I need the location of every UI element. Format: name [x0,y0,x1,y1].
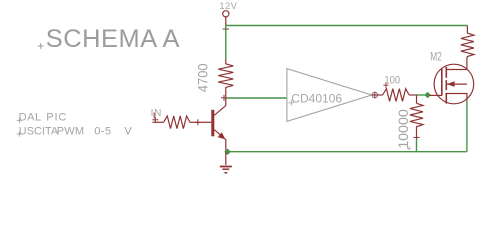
IN origin cross [152,113,158,123]
resistor R base (horizontal) [164,116,191,129]
wire: R10000 to ground rail [416,139,418,152]
ground pin [225,152,227,165]
svg-text:4700: 4700 [194,63,210,92]
value label 10000 (rotated) [395,109,411,149]
gate U1 CD40106 triangle [287,69,372,122]
value label 100 [384,74,400,86]
ground symbol [220,167,232,173]
pin: R10000 top [416,95,418,103]
resistor R 4700 (vertical) [218,59,233,92]
mosfet body line [447,83,467,85]
svg-text:DAL: DAL [19,112,42,124]
wire: bottom ground rail [226,151,467,153]
supply pin [225,17,227,26]
wire: resistor to base pin [190,121,198,123]
mosfet drain tap [446,58,467,70]
inverter bubble [372,92,378,98]
mosfet channel bar [445,67,447,104]
supply label 12V [220,1,238,11]
wire: mosfet source down [466,101,468,152]
transistor Q1 base bar [211,110,214,137]
gate pin [429,94,442,96]
gate label CD40106 [291,91,342,105]
wire: node down to collector [225,98,227,106]
mosfet gate bar [441,69,443,96]
pin: R4700 bottom to junction [225,92,227,98]
svg-text:CD40106: CD40106 [291,91,342,105]
wire: IN to base resistor [153,121,164,123]
svg-text:12V: 12V [220,1,238,11]
resistor R drain (vertical top right) [461,26,474,59]
svg-text:0-5: 0-5 [94,125,111,137]
transistor Q1 emitter [214,130,226,152]
gate origin cross [289,100,295,106]
mosfet body arrow [447,81,455,87]
svg-text:100: 100 [384,74,400,86]
title SCHEMA A [46,25,180,53]
pin: R10000 bottom [416,131,418,139]
wire: node to CD40106 input [226,97,287,99]
wire: to MOSFET gate [417,94,430,96]
R10000 origin cross [413,134,419,140]
wire: top rail 12V [226,25,468,27]
resistor R 100 (horizontal) [383,89,410,102]
output pin of gate [372,94,383,96]
pin: R100 right [409,94,416,96]
svg-text:USCITA: USCITA [19,125,59,137]
resistor R 10000 (vertical) [410,103,423,131]
faint cross near rail [407,146,411,150]
base pin origin cross [195,119,201,125]
supply origin cross [223,26,229,32]
transistor Q1 emitter arrow [218,132,226,139]
svg-text:V: V [124,125,132,137]
text origin cross (USCITA) [17,131,22,136]
mosfet source tap [446,94,467,101]
junction cross below R4700 [221,95,227,101]
transistor Q1 collector [214,106,226,116]
output pin origin cross [374,92,376,98]
annotation USCITA PWM 0-5 V [19,125,133,137]
text origin cross (title) [38,43,44,49]
junction dot (gate net) [424,92,431,99]
mosfet label M2 [430,50,442,64]
svg-text:PIC: PIC [46,112,67,124]
svg-text:M2: M2 [430,50,442,64]
text origin cross (DAL PIC) [17,118,22,123]
svg-text:SCHEMA A: SCHEMA A [46,25,180,53]
annotation DAL PIC [19,112,68,124]
svg-text:IN: IN [151,108,163,119]
net label IN [151,108,163,119]
value origin cross (100) [383,83,388,88]
supply symbol 12V circle [223,11,229,17]
wire: left vertical from rail to R 4700 [225,26,227,60]
transistor base pin [198,121,212,123]
junction dot (emitter/ground) [224,148,231,155]
value label 4700 (rotated) [194,63,210,92]
svg-text:10000: 10000 [395,109,411,149]
mosfet M2 body circle [434,64,474,104]
svg-text:PWM: PWM [57,125,85,137]
